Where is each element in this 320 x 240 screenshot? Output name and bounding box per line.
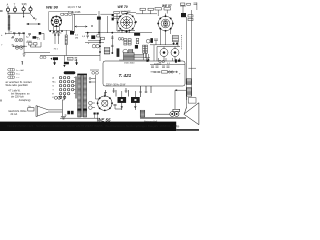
svg-text:4 T ( alle W.: 4 T ( alle W.: [8, 90, 21, 92]
svg-text:2M: 2M: [75, 38, 78, 40]
svg-text:220V~ 50 Hz 30 W: 220V~ 50 Hz 30 W: [106, 85, 126, 87]
svg-text:0,1 50 2W: 0,1 50 2W: [121, 11, 132, 13]
svg-text:Werte teilw. geschätzt: Werte teilw. geschätzt: [6, 84, 29, 87]
svg-text:Anzapfung): Anzapfung): [19, 99, 31, 102]
svg-text:WE 57: WE 57: [162, 4, 172, 8]
svg-text:bei Netzspann. an: bei Netzspann. an: [11, 92, 30, 95]
svg-text:T. 421: T. 421: [119, 73, 132, 78]
svg-text:der 220-Volt-: der 220-Volt-: [11, 95, 24, 98]
svg-text:WE 90: WE 90: [46, 5, 59, 10]
svg-text:S(M): S(M): [22, 4, 27, 6]
svg-text:b + 4nF: b + 4nF: [17, 70, 25, 72]
svg-text:Gleichricht. Röhre: Gleichricht. Röhre: [8, 110, 27, 113]
svg-text:5000: 5000: [27, 41, 33, 43]
svg-text:an verschied. St. montiert: an verschied. St. montiert: [6, 81, 32, 84]
svg-text:2x4500: 2x4500: [154, 63, 162, 65]
svg-text:WE 70: WE 70: [118, 5, 128, 9]
svg-text:Si.: Si.: [28, 106, 31, 108]
svg-text:1500 4000: 1500 4000: [124, 62, 135, 64]
svg-text:TELEFUNKEN 421 . Schaltbild: TELEFUNKEN 421 . Schaltbild mit Röhren W…: [7, 124, 180, 128]
svg-text:10,4 V 7 Sd: 10,4 V 7 Sd: [68, 5, 82, 9]
svg-text:22 mA: 22 mA: [11, 113, 18, 116]
